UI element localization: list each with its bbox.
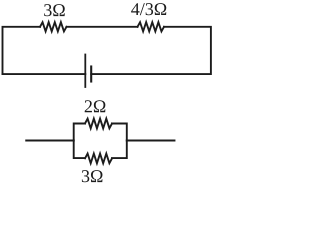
label 3 ohm top: [44, 4, 65, 16]
resistor R2 4/3ohm zigzag: [138, 22, 165, 31]
wire top middle: [67, 26, 138, 28]
label 3 ohm bottom: [82, 170, 103, 182]
battery B1 short plate: [90, 67, 92, 82]
label 2 ohm: [85, 100, 106, 112]
wire top loop left side: [3, 27, 41, 74]
wire lead right: [127, 140, 175, 142]
wire box bottom right: [112, 141, 127, 159]
wire box bottom left: [74, 141, 85, 159]
wire top loop right side: [91, 27, 211, 74]
resistor R4 3ohm zigzag: [85, 154, 112, 164]
wire lead left: [26, 140, 73, 142]
resistor R3 2ohm zigzag: [85, 119, 112, 129]
wire bottom left of battery: [3, 73, 86, 75]
battery B1 long plate: [84, 55, 86, 88]
wire box top right: [112, 124, 127, 141]
wire box top left: [74, 124, 85, 141]
label 4/3 ohm: [131, 3, 166, 15]
resistor R1 3ohm zigzag: [40, 22, 67, 31]
